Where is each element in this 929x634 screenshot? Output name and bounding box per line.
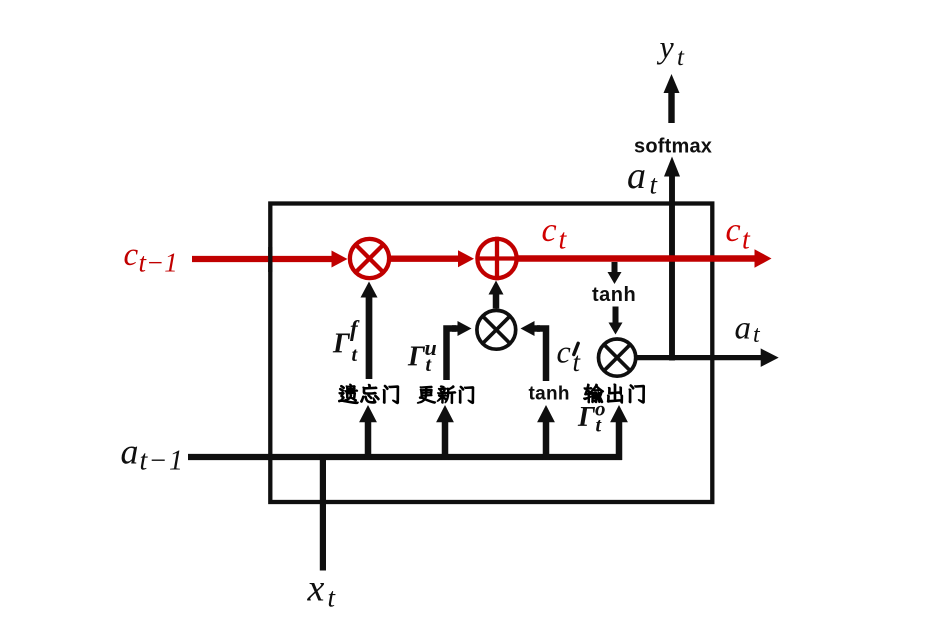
svg-text:x: x — [307, 568, 325, 610]
wire forget-gate arrow into red multiply — [366, 296, 373, 379]
wire arrow up to update gate — [442, 421, 449, 460]
wire a_t vertical up through cell top — [669, 175, 675, 361]
wire a_t-1 horizontal input — [188, 454, 622, 460]
wire softmax to y_t arrow — [668, 92, 674, 124]
svg-text:a: a — [121, 432, 139, 472]
wire c_t-1 red into forget multiply — [192, 256, 333, 262]
svg-text:c: c — [557, 334, 571, 370]
svg-text:a: a — [735, 311, 752, 347]
label forget gate (Chinese) — [339, 384, 359, 403]
node black multiply (update x candidate) — [477, 310, 516, 349]
node red plus (cell update) — [477, 239, 516, 278]
wire a_t horizontal output arrow — [636, 355, 762, 360]
wire arrow up to output gate — [616, 421, 623, 460]
svg-text:Γ: Γ — [332, 329, 351, 360]
svg-text:c: c — [542, 212, 557, 249]
svg-text:tanh: tanh — [592, 284, 636, 306]
svg-text:Γ: Γ — [407, 342, 426, 373]
node black multiply (output gate) — [599, 339, 636, 376]
svg-text:t: t — [559, 225, 568, 256]
wire red between multiply and plus — [391, 256, 460, 262]
svg-text:c: c — [124, 237, 139, 273]
black overlay of box left border over red wire — [268, 247, 272, 272]
svg-text:c: c — [726, 212, 741, 249]
wire arrow down from tanh to output multiply — [613, 307, 619, 325]
label update gate (Chinese) — [417, 386, 435, 403]
label output gate (Chinese) — [584, 384, 604, 403]
svg-text:t: t — [742, 225, 751, 256]
wire arrow up to tanh — [543, 421, 550, 460]
wire x_t vertical input — [320, 454, 326, 571]
svg-text:t: t — [677, 44, 685, 71]
LSTM cell box — [270, 204, 712, 503]
wire black multiply up into plus — [493, 293, 500, 309]
wire tanh elbow into black multiply — [537, 329, 546, 382]
wire arrow down from c_t line to tanh — [612, 262, 618, 274]
svg-text:tanh: tanh — [529, 384, 570, 405]
svg-text:y: y — [657, 29, 675, 65]
wire update-gate elbow into black multiply — [447, 329, 457, 381]
svg-text:Γ: Γ — [577, 402, 596, 433]
wire arrow up to forget gate — [365, 421, 372, 460]
svg-text:t−1: t−1 — [139, 248, 178, 278]
node red multiply (forget gate) — [350, 239, 389, 278]
wire red c_t output — [517, 255, 756, 262]
svg-text:t−1: t−1 — [140, 446, 185, 477]
svg-text:a: a — [627, 155, 646, 197]
